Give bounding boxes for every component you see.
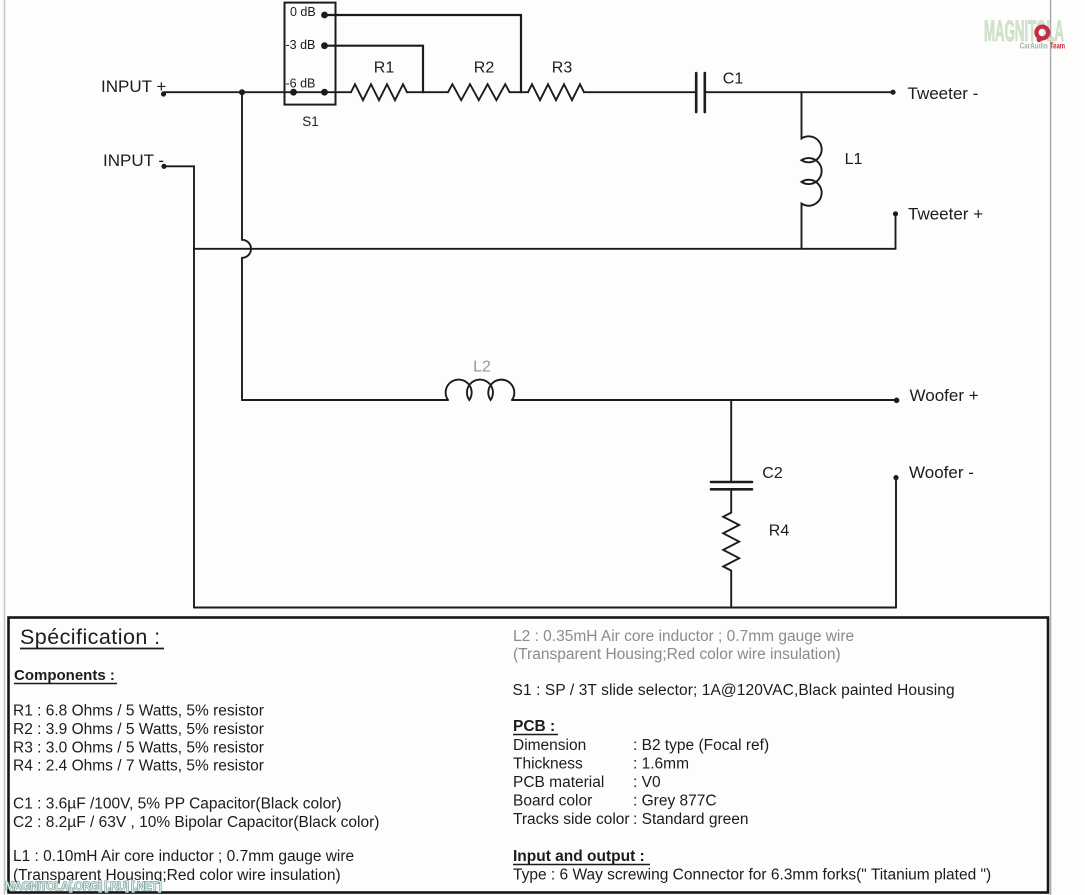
svg-text:C2 : 8.2µF / 63V , 10% Bipola: C2 : 8.2µF / 63V , 10% Bipolar Capacitor… — [13, 814, 379, 831]
svg-text:-3 dB: -3 dB — [286, 38, 316, 52]
svg-text:C2: C2 — [762, 465, 783, 482]
svg-text:MAGNITOLA[.ORG] [.RU] [.NET]: MAGNITOLA[.ORG] [.RU] [.NET] — [5, 881, 162, 893]
svg-text:Tweeter -: Tweeter - — [908, 84, 979, 103]
svg-text:: Grey 877C: : Grey 877C — [633, 793, 717, 810]
svg-text:Team: Team — [1050, 42, 1065, 51]
svg-text:L2: L2 — [473, 359, 491, 376]
svg-text:R4 : 2.4 Ohms / 7 Watts, 5% re: R4 : 2.4 Ohms / 7 Watts, 5% resistor — [13, 758, 264, 775]
svg-text:Type : 6 Way screwing Connecto: Type : 6 Way screwing Connector for 6.3m… — [513, 867, 991, 884]
svg-text:: B2 type (Focal ref): : B2 type (Focal ref) — [633, 737, 769, 754]
svg-text:R4: R4 — [769, 523, 790, 540]
svg-text:-6 dB: -6 dB — [286, 77, 316, 91]
svg-text:Input and output :: Input and output : — [513, 848, 645, 865]
svg-text:: V0: : V0 — [633, 774, 661, 791]
svg-text:Tracks side color: Tracks side color — [513, 811, 630, 828]
svg-text:(Transparent Housing;Red color: (Transparent Housing;Red color wire insu… — [513, 646, 841, 663]
svg-text:S1: S1 — [302, 114, 319, 129]
svg-text:Woofer -: Woofer - — [909, 463, 974, 482]
svg-text:Tweeter +: Tweeter + — [908, 205, 983, 224]
svg-text:: 1.6mm: : 1.6mm — [633, 756, 689, 773]
svg-text:Thickness: Thickness — [513, 756, 583, 773]
svg-text:S1 : SP / 3T slide selector; 1: S1 : SP / 3T slide selector; 1A@120VAC,B… — [513, 682, 955, 699]
svg-text:CarAudio: CarAudio — [1020, 42, 1048, 51]
svg-text:L1: L1 — [845, 151, 863, 168]
svg-text:Components :: Components : — [14, 667, 115, 684]
svg-text:R2: R2 — [474, 60, 495, 77]
svg-text:PCB material: PCB material — [513, 774, 604, 791]
svg-text:INPUT +: INPUT + — [101, 77, 166, 96]
svg-text:R3 : 3.0 Ohms / 5 Watts, 5% re: R3 : 3.0 Ohms / 5 Watts, 5% resistor — [13, 740, 264, 757]
svg-text:L1 : 0.10mH Air core inductor: L1 : 0.10mH Air core inductor ; 0.7mm ga… — [13, 848, 354, 865]
svg-text:R2 : 3.9 Ohms / 5 Watts, 5% re: R2 : 3.9 Ohms / 5 Watts, 5% resistor — [13, 721, 264, 738]
svg-text:C1 : 3.6µF /100V, 5% PP Capaci: C1 : 3.6µF /100V, 5% PP Capacitor(Black … — [13, 796, 342, 813]
svg-text:INPUT -: INPUT - — [103, 151, 164, 170]
svg-text:PCB :: PCB : — [513, 718, 555, 735]
svg-text:Spécification :: Spécification : — [20, 625, 161, 649]
svg-text:Dimension: Dimension — [513, 737, 586, 754]
svg-text:C1: C1 — [723, 71, 744, 88]
svg-text:L2 : 0.35mH Air core inductor: L2 : 0.35mH Air core inductor ; 0.7mm ga… — [513, 628, 854, 645]
svg-text:0 dB: 0 dB — [290, 5, 316, 19]
svg-text:Board color: Board color — [513, 793, 592, 810]
svg-text:R1 : 6.8 Ohms / 5 Watts, 5% re: R1 : 6.8 Ohms / 5 Watts, 5% resistor — [13, 703, 264, 720]
svg-text:R3: R3 — [552, 60, 573, 77]
svg-text:: Standard green: : Standard green — [633, 811, 748, 828]
svg-text:Woofer +: Woofer + — [910, 386, 979, 405]
svg-text:R1: R1 — [374, 60, 395, 77]
